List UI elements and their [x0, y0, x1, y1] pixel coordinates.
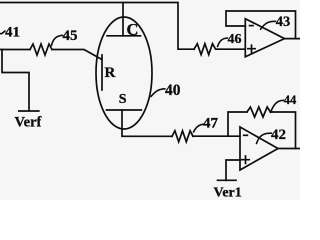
wire: S electrode down and right to resistor 47 [122, 110, 172, 136]
resistor 45 [30, 44, 52, 55]
feedback wire of op-amp 43 [226, 11, 296, 39]
pin - of U43 [250, 25, 254, 27]
label C [127, 20, 139, 39]
svg-text:42: 42 [271, 127, 286, 143]
label 46 with leader [218, 32, 242, 47]
wire: resistor 46 to op-amp 43 non-inverting input [218, 48, 245, 50]
op-amp U43 [245, 19, 284, 57]
svg-text:47: 47 [203, 115, 219, 131]
op-amp U42 [240, 127, 278, 170]
svg-text:Verf: Verf [15, 114, 42, 130]
svg-text:R: R [105, 65, 116, 81]
pin - of U42 [244, 134, 248, 136]
resistor 44 [247, 107, 272, 117]
svg-text:45: 45 [63, 28, 78, 44]
svg-text:Ver1: Ver1 [214, 186, 242, 200]
pin + of U42 [242, 156, 249, 163]
svg-text:40: 40 [165, 82, 181, 99]
wire: op-amp 43 output [285, 38, 301, 40]
svg-text:46: 46 [228, 32, 242, 47]
svg-text:41: 41 [5, 24, 20, 40]
label 41 with leader [0, 24, 20, 40]
label 47 with leader [194, 115, 219, 132]
label R [105, 65, 116, 81]
resistor 47 [172, 131, 193, 142]
svg-text:44: 44 [284, 93, 297, 107]
wire: resistor 45 to R electrode (diagonal) [52, 50, 102, 60]
electrode plate S [107, 109, 142, 111]
wire: tap from top bus down to C electrode [122, 3, 124, 36]
svg-text:S: S [119, 92, 127, 107]
label 45 with leader [52, 28, 78, 45]
label Ver1 [214, 186, 242, 201]
wire: resistor 47 to op-amp 42 inverting input [193, 135, 240, 137]
pin + of U43 [248, 45, 255, 52]
tube envelope 40 (ellipse) [96, 17, 152, 129]
wire: branch from input node down to Verf terminal [2, 50, 29, 111]
resistor 46 [194, 44, 218, 55]
terminal bar Verf [19, 110, 39, 112]
wire: top bus from left edge to op-amp 43 branch [0, 3, 194, 50]
electrode plate C [107, 35, 141, 37]
svg-text:43: 43 [276, 14, 291, 30]
label Verf [15, 114, 42, 130]
label 44 with leader [271, 93, 298, 112]
wire: op-amp 42 non-inverting input to Ver1 terminal [226, 160, 240, 180]
electrode plate R [101, 55, 103, 90]
feedback branch wires of op-amp 42 [228, 112, 296, 149]
label 43 with leader [261, 14, 291, 30]
wire: left input to resistor 45 [0, 49, 30, 51]
label 40 with leader [151, 82, 181, 99]
label S [119, 92, 127, 107]
terminal bar Ver1 [218, 179, 237, 181]
wire: op-amp 42 output [278, 148, 300, 150]
label 42 with leader [257, 127, 287, 144]
